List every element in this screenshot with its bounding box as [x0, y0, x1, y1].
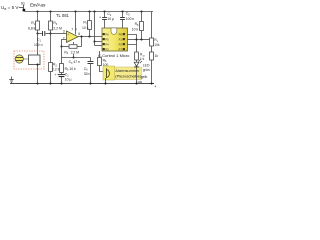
wire R2 column — [50, 34, 52, 63]
resistor R11 — [150, 52, 154, 60]
wire to op-amp non-inverting input — [51, 33, 67, 35]
junction top rail at IC wire — [93, 10, 95, 12]
wire top supply rail — [25, 11, 154, 13]
capacitor C1 — [38, 33, 43, 35]
svg-text:P7: P7 — [119, 47, 123, 51]
node P junction bias divider — [49, 32, 51, 34]
junction top rail at R7 — [88, 10, 90, 12]
svg-text:P4: P4 — [105, 42, 109, 46]
svg-text:10 k: 10 k — [82, 26, 89, 30]
LED D1 — [134, 62, 139, 66]
svg-text:C5: C5 — [126, 12, 130, 17]
svg-text:C3 47 n: C3 47 n — [69, 60, 80, 65]
capacitor C5 — [122, 12, 124, 18]
svg-text:10k: 10k — [154, 43, 160, 47]
wire bottom ground rail — [10, 83, 154, 85]
wire right edge drop — [151, 12, 153, 39]
svg-text:+: + — [54, 73, 56, 77]
svg-text:3: 3 — [63, 30, 65, 34]
IC pin P2 — [103, 38, 105, 40]
ground — [11, 77, 13, 80]
svg-text:100 n: 100 n — [126, 17, 135, 21]
junction output/R4 — [80, 35, 82, 37]
wire pin4 stub — [73, 42, 75, 44]
junction top rail at C5 — [121, 10, 123, 12]
wire to IC pin — [95, 45, 103, 47]
wire IC supply column — [94, 12, 96, 46]
wire IC right bracket — [128, 35, 137, 45]
junction IC pin wire — [93, 40, 95, 42]
svg-text:S1: S1 — [21, 2, 25, 6]
wire R10/LED column — [136, 45, 138, 53]
svg-text:10 µ: 10 µ — [65, 77, 72, 81]
svg-text:R3: R3 — [53, 21, 57, 26]
svg-text:32n: 32n — [84, 72, 90, 76]
junction top rail at R1 — [36, 10, 38, 12]
node buzzer caption — [115, 67, 142, 80]
svg-text:1 k: 1 k — [140, 57, 145, 61]
svg-text:R4: R4 — [64, 50, 68, 55]
junction ground rail C6 — [89, 82, 91, 84]
wire to R9 — [137, 39, 150, 41]
IC pin P1 — [103, 33, 105, 35]
svg-text:R8: R8 — [135, 22, 139, 27]
junction feedback node — [60, 45, 62, 47]
svg-text:7: 7 — [71, 27, 73, 31]
svg-text:Ein/Aus: Ein/Aus — [30, 3, 46, 9]
wire mic to ground — [37, 65, 39, 84]
wire op-amp pin7 supply — [75, 12, 77, 35]
junction bracket — [135, 38, 137, 40]
junction top rail at R3 — [49, 10, 51, 12]
wire mic link — [23, 58, 28, 60]
resistor R7 pullup — [89, 12, 91, 21]
IC pin P3 — [103, 43, 105, 45]
microphone M1 capsule — [15, 55, 23, 63]
junction ground rail right column — [150, 82, 152, 84]
svg-text:10 µ: 10 µ — [107, 17, 114, 21]
svg-text:2,2 M: 2,2 M — [71, 50, 80, 54]
resistor R8 — [141, 12, 143, 22]
svg-text:gelb: gelb — [141, 75, 148, 79]
resistor R3 — [50, 12, 52, 22]
svg-text:R5 10 k: R5 10 k — [65, 67, 76, 72]
wire op-amp output — [78, 36, 102, 38]
wire — [19, 7, 23, 9]
IC pin P4 — [103, 48, 105, 50]
svg-text:100: 100 — [137, 80, 142, 84]
wire gain chain down — [61, 47, 63, 64]
svg-text:P6: P6 — [105, 32, 109, 36]
svg-text:R1: R1 — [31, 21, 35, 26]
junction top rail at R8 — [140, 10, 142, 12]
junction R8 column — [140, 38, 142, 40]
svg-text:(Piezoscheibe): (Piezoscheibe) — [115, 73, 141, 78]
capacitor C4 electrolytic — [104, 12, 106, 18]
IC pin P7 — [123, 43, 125, 45]
svg-text:6,8 k: 6,8 k — [28, 26, 36, 30]
svg-text:R7: R7 — [83, 21, 87, 26]
svg-text:100 n: 100 n — [34, 43, 43, 47]
capacitor C6 — [90, 58, 92, 62]
svg-text:grün: grün — [143, 68, 150, 72]
svg-text:P5: P5 — [105, 37, 109, 41]
svg-text:P3: P3 — [105, 47, 109, 51]
svg-text:P1: P1 — [119, 37, 123, 41]
svg-text:6: 6 — [78, 32, 80, 36]
microphone body box — [29, 55, 41, 65]
resistor R4 feedback — [62, 46, 70, 48]
svg-text:LED: LED — [143, 63, 150, 67]
svg-text:P2: P2 — [119, 42, 123, 46]
svg-text:10 k: 10 k — [132, 27, 139, 31]
resistor R9 — [150, 38, 154, 46]
junction on filter net — [72, 56, 74, 58]
svg-text:TL 081: TL 081 — [56, 13, 70, 18]
IC pin P5 — [123, 33, 125, 35]
resistor R2 — [49, 63, 53, 72]
IC pin P8 — [123, 48, 125, 50]
junction top rail at op-amp pin7 — [74, 10, 76, 12]
svg-text:+: + — [99, 16, 101, 20]
svg-text:C-Control 1 Micro: C-Control 1 Micro — [98, 53, 130, 58]
svg-text:P0: P0 — [119, 32, 123, 36]
junction ground rail C2 — [60, 82, 62, 84]
resistor R6 — [99, 51, 101, 58]
wire to IC pin — [95, 41, 103, 43]
wire horizontal filter net — [62, 57, 91, 59]
junction output/R7 — [88, 35, 90, 37]
junction ground rail mic — [36, 82, 38, 84]
junction top rail at C4 — [103, 10, 105, 12]
svg-text:2,2 M: 2,2 M — [53, 26, 62, 30]
junction mic box — [36, 63, 38, 65]
wire op-amp pin2 inverting input — [62, 40, 67, 47]
microphone M1 dashed box — [14, 51, 44, 69]
buzzer BZ1 piezo disc — [103, 66, 115, 80]
svg-text:+: + — [67, 32, 69, 36]
svg-text:1k: 1k — [155, 54, 159, 58]
wire mic column — [37, 34, 39, 56]
junction ground rail buzzer — [104, 82, 106, 84]
svg-text:4: 4 — [155, 85, 157, 89]
svg-text:UB = 5 V: UB = 5 V — [1, 5, 19, 11]
IC pin P6 — [123, 38, 125, 40]
node M junction R1/C1/mic — [36, 32, 38, 34]
junction ground rail R2 — [49, 82, 51, 84]
svg-text:−: − — [68, 38, 70, 42]
resistor R1 — [37, 12, 39, 22]
junction ground rail LED — [135, 82, 137, 84]
resistor R5 — [60, 64, 64, 73]
resistor R10 — [135, 52, 139, 60]
